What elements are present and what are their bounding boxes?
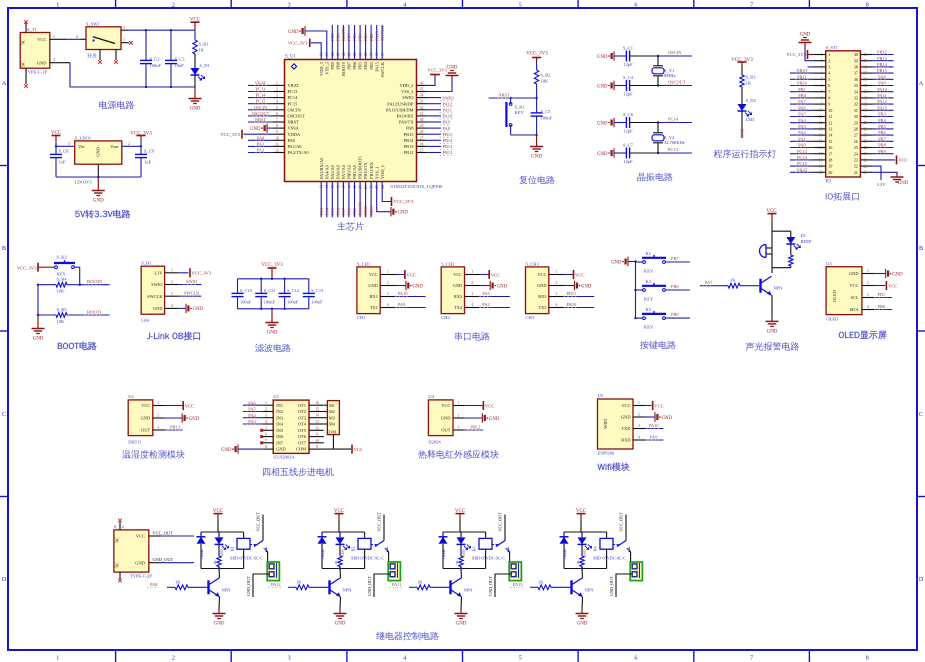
wire VCC_OUT relay K1	[262, 515, 264, 541]
svg-text:RX1: RX1	[370, 294, 378, 299]
svg-text:SWCLK: SWCLK	[380, 25, 385, 41]
svg-text:VCC_3V3: VCC_3V3	[786, 52, 806, 57]
svg-text:PA1: PA1	[257, 141, 264, 146]
zone column ticks top	[115, 0, 117, 8]
svg-text:29: 29	[854, 120, 858, 125]
svg-text:GND: GND	[135, 560, 145, 565]
svg-text:S_R5: S_R5	[57, 307, 68, 312]
svg-text:PB2/BOOT1: PB2/BOOT1	[358, 156, 363, 179]
svg-text:VDD_1: VDD_1	[380, 165, 385, 179]
svg-text:NPN: NPN	[585, 587, 595, 592]
ground GND OLED pin1	[874, 273, 886, 275]
svg-text:10K: 10K	[57, 289, 66, 294]
svg-text:7: 7	[750, 2, 753, 8]
svg-text:13: 13	[315, 420, 319, 424]
svg-text:33: 33	[420, 100, 424, 104]
svg-text:10uF: 10uF	[175, 63, 185, 68]
relay coil K2 SRD-05VDC-SL-C	[358, 538, 371, 549]
net VCC_OUT wire	[149, 535, 161, 537]
svg-text:U3: U3	[826, 261, 832, 266]
svg-text:GND: GND	[662, 416, 673, 421]
svg-text:LED: LED	[220, 549, 224, 556]
svg-text:S_CH3: S_CH3	[526, 261, 540, 266]
svg-text:32: 32	[864, 103, 868, 107]
svg-text:1K: 1K	[455, 560, 459, 565]
svg-text:M1: M1	[329, 403, 335, 408]
svg-text:1: 1	[56, 656, 59, 662]
OLED pin 1 GND	[862, 273, 874, 275]
svg-text:GND: GND	[33, 337, 44, 342]
svg-text:VCC_OUT: VCC_OUT	[498, 512, 503, 532]
svg-text:28: 28	[420, 130, 424, 134]
svg-text:PB3: PB3	[369, 33, 374, 41]
svg-text:32: 32	[854, 102, 858, 107]
IO port left pin 9	[814, 103, 826, 105]
svg-text:20: 20	[828, 170, 832, 175]
svg-text:PA8: PA8	[878, 74, 886, 79]
svg-text:PA5: PA5	[330, 207, 335, 215]
title crystal circuit	[637, 173, 672, 182]
wire PC13 row	[658, 152, 692, 154]
svg-text:PA2: PA2	[798, 130, 805, 135]
svg-text:PA5: PA5	[248, 407, 256, 412]
connector S_H1 J-Link	[141, 266, 164, 314]
svg-text:RX2: RX2	[454, 294, 462, 299]
title U4	[418, 450, 499, 459]
svg-text:5: 5	[519, 2, 522, 8]
connector stepper motor M1-M4	[327, 401, 339, 435]
capacitor S_C11 100nF	[260, 279, 262, 294]
svg-text:12: 12	[828, 120, 832, 125]
svg-text:PA3: PA3	[482, 291, 490, 296]
svg-text:PB1: PB1	[352, 208, 357, 216]
svg-text:30: 30	[420, 118, 424, 122]
svg-text:PC15: PC15	[797, 161, 808, 166]
connector S_T2 TYPE-C-2P output	[114, 530, 149, 572]
U2 pin 1 VCC	[153, 405, 165, 407]
svg-text:9: 9	[821, 103, 823, 107]
svg-text:3: 3	[276, 94, 278, 98]
U2 pin 3 OUT	[153, 429, 165, 431]
IO port left pin 18	[814, 159, 826, 161]
svg-text:VSS_1: VSS_1	[374, 167, 379, 179]
svg-text:100nF: 100nF	[311, 300, 323, 305]
svg-text:KEY: KEY	[644, 325, 654, 330]
svg-text:8: 8	[265, 445, 267, 449]
power VCC S_CH3	[565, 274, 573, 276]
IO port left pin 14	[814, 134, 826, 136]
svg-text:PA7: PA7	[705, 280, 713, 285]
svg-text:NC: NC	[115, 562, 120, 568]
S_T2 bottom NC stub	[119, 572, 121, 579]
power VCC S_CH1	[396, 274, 404, 276]
wire NRST row	[536, 84, 538, 98]
svg-text:100nF: 100nF	[287, 300, 299, 305]
svg-text:IN6: IN6	[276, 434, 284, 439]
chip pin1 marker	[291, 64, 296, 69]
svg-text:1K: 1K	[417, 579, 423, 584]
svg-text:GND: GND	[849, 271, 859, 276]
capacitor S_C13 100nF	[308, 279, 310, 294]
svg-text:LED: LED	[583, 549, 587, 556]
svg-text:S_K2: S_K2	[57, 255, 67, 260]
resistor below D1	[790, 244, 792, 255]
svg-text:3: 3	[471, 292, 473, 296]
svg-text:PB6: PB6	[352, 61, 357, 69]
svg-text:GND: GND	[96, 146, 101, 156]
ground GND at VSSA	[267, 127, 273, 129]
crystal S_Y2 32.768KHz	[657, 123, 659, 133]
svg-text:PA9/TX: PA9/TX	[399, 120, 414, 125]
svg-text:10: 10	[315, 439, 319, 443]
svg-text:PB10: PB10	[797, 81, 808, 86]
svg-text:M2: M2	[329, 409, 335, 414]
buzzer symbol	[760, 245, 766, 258]
svg-text:VCC: VCC	[485, 403, 494, 408]
title alarm circuit	[746, 342, 799, 351]
svg-text:SWIO: SWIO	[186, 279, 197, 284]
svg-text:S_R2: S_R2	[541, 73, 551, 78]
svg-text:IN5: IN5	[276, 428, 284, 433]
motor pin M1	[324, 404, 328, 406]
title 5V to 3.3V	[75, 210, 130, 219]
svg-text:3: 3	[265, 414, 267, 418]
svg-text:PB8: PB8	[335, 61, 340, 69]
svg-text:35: 35	[420, 88, 424, 92]
svg-text:GND: GND	[189, 417, 200, 422]
crystal S_Y1 8MHz	[657, 56, 659, 66]
svg-text:25: 25	[420, 149, 424, 153]
svg-text:PB12: PB12	[470, 425, 480, 430]
svg-text:VCC: VCC	[369, 272, 378, 277]
svg-text:S_T1: S_T1	[27, 27, 37, 32]
svg-text:2: 2	[157, 414, 159, 418]
svg-text:GND: GND	[497, 284, 508, 289]
U4 pin 3 OUT	[453, 429, 465, 431]
svg-text:1: 1	[276, 81, 278, 85]
svg-text:12pF: 12pF	[623, 62, 633, 67]
svg-text:PA3: PA3	[319, 207, 324, 215]
net wire PB12	[465, 429, 483, 431]
ground GND relay K1	[218, 610, 220, 614]
svg-text:S_C8: S_C8	[59, 148, 70, 153]
svg-text:3: 3	[171, 292, 173, 296]
svg-text:STM32F103C8T6_LQFP48: STM32F103C8T6_LQFP48	[390, 184, 443, 189]
svg-text:A: A	[919, 81, 924, 87]
svg-text:GND: GND	[190, 107, 201, 112]
svg-text:4: 4	[403, 656, 406, 662]
svg-text:10K: 10K	[57, 319, 66, 324]
svg-text:33: 33	[854, 96, 858, 101]
IO port right pin 24	[860, 153, 872, 155]
svg-text:9: 9	[276, 130, 278, 134]
svg-text:PA0: PA0	[257, 135, 265, 140]
svg-text:15: 15	[819, 140, 823, 144]
svg-text:GND: GND	[221, 448, 232, 453]
svg-text:LED: LED	[462, 549, 466, 556]
net wire PB11	[565, 296, 595, 298]
base resistor 1K relay K2	[288, 586, 296, 588]
svg-text:SWCLK: SWCLK	[147, 294, 163, 299]
ground GND jlink pin4	[179, 307, 186, 309]
svg-text:6: 6	[821, 84, 823, 88]
IO port right pin 34	[860, 91, 872, 93]
svg-text:23: 23	[854, 158, 858, 163]
svg-text:VCC: VCC	[37, 37, 46, 42]
svg-text:30: 30	[854, 114, 858, 119]
svg-text:VCC: VCC	[575, 272, 584, 277]
svg-text:GND: GND	[37, 60, 47, 65]
resistor 1K relay LED K1	[218, 544, 220, 556]
svg-text:D203S: D203S	[428, 440, 441, 445]
svg-text:26: 26	[864, 140, 868, 144]
svg-text:36: 36	[864, 78, 868, 82]
title wifi module	[598, 463, 630, 472]
S_CH1 pin 2 GND	[380, 285, 396, 287]
title program run indicator	[714, 149, 777, 158]
svg-text:NPN: NPN	[343, 587, 353, 592]
svg-text:U2: U2	[128, 394, 134, 399]
transistor NPN relay K2	[328, 580, 330, 594]
svg-text:NC: NC	[21, 39, 26, 45]
power VCC_3V3 LDO output	[140, 136, 142, 142]
svg-text:12pF: 12pF	[623, 92, 633, 97]
svg-text:8: 8	[821, 96, 823, 100]
wire Vout to VCC_3V3	[122, 145, 141, 147]
svg-text:1: 1	[867, 269, 869, 273]
svg-text:8: 8	[866, 656, 869, 662]
svg-text:31: 31	[864, 109, 868, 113]
motor pin M4	[324, 423, 328, 425]
svg-text:GND: GND	[740, 128, 745, 138]
ground GND U2	[165, 417, 183, 419]
svg-text:GND_OUT: GND_OUT	[153, 557, 174, 562]
svg-text:S_C1: S_C1	[623, 46, 633, 51]
relay loop wires K1	[201, 531, 244, 533]
svg-text:2: 2	[128, 141, 130, 146]
connector S_ST1 IO port body	[826, 51, 861, 177]
svg-text:OSCOUT: OSCOUT	[252, 111, 270, 116]
svg-text:2: 2	[171, 280, 173, 284]
svg-text:IO: IO	[826, 180, 832, 185]
ground GND S_CH3	[565, 285, 575, 287]
svg-text:S_CH2: S_CH2	[441, 261, 454, 266]
svg-text:GND: GND	[93, 199, 104, 204]
svg-text:SRD-05VDC-SL-C: SRD-05VDC-SL-C	[593, 556, 626, 561]
connector S_CH1	[357, 267, 380, 314]
title reset circuit	[519, 176, 554, 185]
svg-text:1K: 1K	[538, 579, 544, 584]
svg-text:15: 15	[315, 408, 319, 412]
svg-text:PB3: PB3	[369, 61, 374, 69]
svg-text:12: 12	[275, 149, 279, 153]
svg-text:CH2: CH2	[441, 315, 450, 320]
svg-text:20: 20	[819, 171, 823, 175]
svg-text:19: 19	[819, 165, 823, 169]
ground GND IO pin2	[805, 46, 814, 61]
resistor S_R5 10K	[38, 314, 56, 316]
svg-text:PC14: PC14	[288, 95, 299, 100]
wire GND_OUT relay K1	[253, 574, 269, 597]
wire VCC_OUT relay K2	[383, 515, 385, 541]
svg-text:VCC: VCC	[136, 534, 145, 539]
svg-text:GND: GND	[141, 416, 151, 421]
S_CH1 pin 4 TX1	[380, 307, 396, 309]
svg-text:U4: U4	[428, 394, 434, 399]
svg-text:PA6/A0: PA6/A0	[335, 164, 340, 179]
svg-text:PA9: PA9	[878, 81, 886, 86]
svg-text:PB7: PB7	[347, 61, 352, 69]
svg-text:36: 36	[854, 77, 858, 82]
svg-text:38: 38	[854, 65, 858, 70]
WIFI pin 3 TXD	[633, 428, 645, 430]
resistor 1K relay LED K2	[339, 544, 341, 556]
svg-text:30: 30	[864, 115, 868, 119]
power VCC_3V3 at VDD_3	[311, 43, 321, 60]
connector S_CH2	[441, 267, 464, 314]
svg-text:24: 24	[864, 152, 868, 156]
svg-text:ESP8266: ESP8266	[598, 451, 616, 456]
svg-text:100nF: 100nF	[240, 300, 252, 305]
svg-text:1K: 1K	[213, 560, 217, 565]
svg-text:VCC: VCC	[453, 272, 462, 277]
svg-text:1: 1	[53, 34, 55, 39]
svg-text:PB7: PB7	[347, 33, 352, 41]
svg-text:33: 33	[864, 96, 868, 100]
relay loop wires K3	[443, 531, 486, 533]
J-Link pin 3 SWCLK	[165, 295, 179, 297]
svg-text:VCC: VCC	[654, 403, 663, 408]
motor pin M3	[324, 417, 328, 419]
svg-text:7: 7	[265, 439, 267, 443]
svg-text:3: 3	[123, 25, 125, 30]
IO port right pin 25	[860, 147, 872, 149]
relay switch K1	[250, 544, 256, 546]
resistor 1K relay LED K4	[581, 544, 583, 556]
svg-text:1N4007: 1N4007	[442, 548, 446, 559]
svg-text:PA6: PA6	[335, 207, 340, 215]
svg-text:1N4007: 1N4007	[321, 548, 325, 559]
IO port right pin 39	[860, 60, 872, 62]
wire switch to terminal K3	[509, 551, 511, 566]
IO port left pin 13	[814, 128, 826, 130]
svg-text:PC14: PC14	[668, 117, 679, 122]
S_CH1 pin 1 VCC	[380, 274, 396, 276]
IO port right pin 33	[860, 97, 872, 99]
svg-text:PA15: PA15	[877, 105, 887, 110]
ground GND relay K3	[460, 610, 462, 614]
svg-text:S_ST1: S_ST1	[826, 45, 838, 50]
wire GND_OUT relay K3	[495, 574, 511, 597]
svg-text:OUT: OUT	[141, 428, 150, 433]
svg-text:GND: GND	[597, 55, 608, 60]
svg-text:2: 2	[265, 408, 267, 412]
svg-text:100nF: 100nF	[541, 116, 553, 121]
svg-text:3.3V: 3.3V	[154, 270, 163, 275]
svg-text:1: 1	[123, 37, 125, 42]
svg-text:19: 19	[828, 164, 832, 169]
svg-text:S_U1: S_U1	[285, 55, 297, 60]
svg-text:A: A	[2, 81, 7, 87]
svg-text:NC: NC	[115, 537, 120, 543]
svg-text:TXD: TXD	[621, 426, 630, 431]
main chip S_U1 body	[285, 60, 417, 182]
svg-text:PB13: PB13	[404, 144, 415, 149]
wire switch to terminal K2	[388, 551, 390, 566]
svg-text:VDDA: VDDA	[288, 132, 302, 137]
svg-text:OLED: OLED	[832, 289, 837, 302]
svg-text:PB11: PB11	[567, 291, 577, 296]
svg-text:8: 8	[276, 124, 278, 128]
svg-text:VSS_2: VSS_2	[401, 89, 413, 94]
svg-text:GND: GND	[767, 329, 778, 334]
S_T1 top NC stub	[25, 23, 27, 33]
left rail boot	[37, 285, 39, 315]
ground GND alarm	[771, 318, 773, 322]
svg-text:PB9: PB9	[671, 312, 679, 317]
svg-text:GND_OUT: GND_OUT	[246, 576, 251, 596]
no-connect dot IN7	[260, 441, 263, 444]
svg-text:S_K1: S_K1	[515, 105, 525, 110]
svg-text:17: 17	[819, 152, 823, 156]
IO port right pin 38	[860, 66, 872, 68]
svg-text:GND: GND	[531, 155, 542, 160]
switch bottom stubs no-connect	[99, 50, 101, 61]
svg-text:GND: GND	[214, 622, 225, 627]
power VCC_3V3 reset	[536, 58, 538, 63]
svg-text:10: 10	[828, 108, 832, 113]
svg-text:GND: GND	[581, 284, 592, 289]
svg-text:IN3: IN3	[276, 415, 284, 420]
J-Link pin 4 GND	[165, 307, 179, 309]
wire switch to terminal K4	[630, 551, 632, 566]
net wire PA3	[480, 296, 510, 298]
svg-text:11: 11	[819, 115, 823, 119]
svg-text:2: 2	[471, 281, 473, 285]
svg-text:OT7: OT7	[298, 440, 307, 445]
svg-text:4: 4	[387, 303, 389, 307]
IO port left pin 2	[814, 60, 826, 62]
svg-text:PA12: PA12	[271, 582, 281, 587]
svg-text:GND: GND	[597, 121, 608, 126]
wire GND_OUT relay K4	[616, 574, 632, 597]
svg-text:3: 3	[638, 424, 640, 428]
svg-text:GND: GND	[898, 181, 909, 186]
svg-text:S_C13: S_C13	[311, 288, 324, 293]
svg-text:NRST: NRST	[255, 117, 267, 122]
svg-text:VCC_OUT: VCC_OUT	[153, 531, 174, 536]
WIFI pin 4 RXD	[633, 439, 645, 441]
svg-text:TX3: TX3	[538, 305, 547, 310]
relay switch K2	[371, 544, 377, 546]
svg-text:IN4: IN4	[276, 422, 284, 427]
svg-text:K1: K1	[646, 251, 652, 256]
svg-text:GND: GND	[621, 415, 631, 420]
svg-text:PB4: PB4	[363, 61, 368, 69]
wire key to BOOT0 node	[75, 267, 80, 285]
svg-text:KEY: KEY	[515, 110, 525, 115]
IO port right pin 32	[860, 103, 872, 105]
svg-text:4: 4	[403, 2, 406, 8]
IC U3 ULN2003A body	[273, 400, 309, 453]
svg-text:S_C4: S_C4	[623, 75, 634, 80]
capacitor S_C1 12pF	[614, 55, 626, 57]
svg-text:VDD_3: VDD_3	[319, 61, 324, 76]
svg-text:2: 2	[276, 88, 278, 92]
IO port right pin 29	[860, 122, 872, 124]
svg-text:GND: GND	[335, 622, 346, 627]
svg-text:1: 1	[828, 52, 830, 57]
